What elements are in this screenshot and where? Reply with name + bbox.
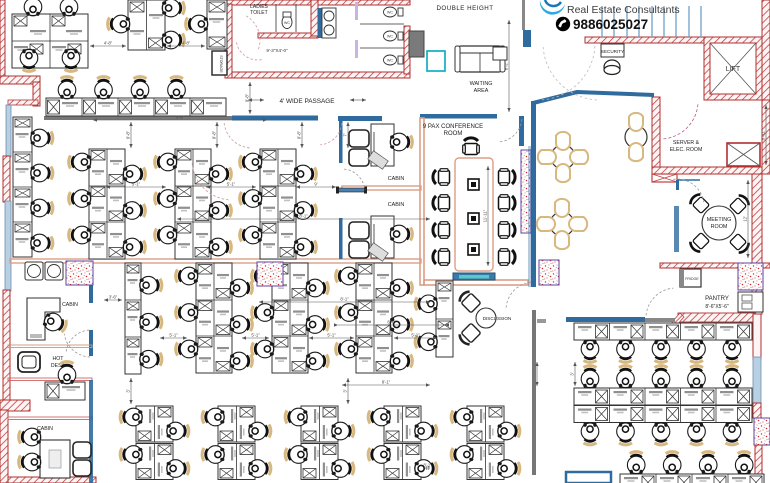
- svg-text:CABIN: CABIN: [388, 202, 405, 208]
- cabin front glass top: [338, 116, 382, 121]
- cabin 4 chair 1: [19, 428, 41, 446]
- entrance wall: [585, 37, 707, 43]
- chair: [230, 316, 252, 334]
- carpet tile right edge: [754, 418, 770, 445]
- wc 2: [384, 7, 404, 17]
- svg-text:8'-1": 8'-1": [423, 463, 432, 468]
- chair P2: [95, 77, 113, 99]
- chair B2: [162, 0, 184, 17]
- chair: [652, 423, 670, 445]
- exterior wall step vertical: [33, 82, 40, 106]
- workstation column D5: [415, 281, 453, 357]
- toilet door arc: [246, 16, 260, 50]
- workstation pod E15: [451, 406, 520, 442]
- passage door arc: [224, 122, 250, 147]
- svg-text:9'-8": 9'-8": [297, 130, 302, 139]
- pantry counter: [738, 292, 763, 312]
- passage wall gray: [44, 116, 232, 120]
- conference room bottom wall: [424, 280, 528, 285]
- exterior wall right glass: [753, 314, 761, 360]
- chair: [155, 190, 177, 208]
- server duct box: [652, 174, 677, 182]
- carpet tile A: [66, 261, 93, 285]
- conference chair R: [499, 222, 516, 239]
- exterior wall left upper: [0, 0, 5, 77]
- chair: [123, 165, 145, 183]
- chair: [723, 340, 741, 362]
- svg-text:9'-8": 9'-8": [126, 130, 131, 139]
- svg-text:WC: WC: [284, 21, 290, 25]
- svg-text:11'-11": 11'-11": [483, 209, 488, 222]
- chair: [581, 340, 599, 362]
- meeting room table: [702, 206, 736, 240]
- chair: [415, 333, 437, 351]
- chair A3: [20, 49, 38, 71]
- chair: [69, 153, 91, 171]
- meeting chair: [729, 193, 751, 215]
- chair: [735, 452, 753, 474]
- cabin 3 desk: [27, 298, 60, 340]
- chair: [240, 226, 262, 244]
- discussion chair 2: [458, 323, 481, 346]
- svg-text:5'-1": 5'-1": [169, 333, 178, 338]
- svg-text:CABIN: CABIN: [388, 176, 405, 182]
- wc 3: [384, 31, 404, 41]
- chair: [415, 295, 437, 313]
- exterior wall step band: [0, 76, 40, 84]
- chair: [249, 460, 271, 478]
- server room left wall: [652, 97, 660, 174]
- workstation column D1: [125, 263, 162, 374]
- chair: [202, 408, 224, 426]
- conference chair head: [463, 138, 480, 155]
- svg-text:8'-1": 8'-1": [299, 214, 308, 219]
- cabin 2 guest chairs: [349, 222, 369, 258]
- exterior wall right at server room: [762, 100, 770, 174]
- chair: [390, 279, 412, 297]
- conference chair R: [499, 195, 516, 212]
- cabin wall 3: [8, 417, 92, 420]
- svg-text:WAITING: WAITING: [470, 81, 493, 87]
- chair: [581, 366, 599, 388]
- svg-text:4' WIDE PASSAGE: 4' WIDE PASSAGE: [279, 98, 334, 105]
- chair: [209, 202, 231, 220]
- svg-text:9'-8": 9'-8": [212, 130, 217, 139]
- side table: [493, 47, 507, 60]
- toilet block left wall: [225, 4, 232, 78]
- svg-text:DISCUSSION: DISCUSSION: [483, 316, 512, 321]
- exterior wall right seg: [753, 403, 761, 418]
- glass wall left lower: [5, 201, 11, 291]
- chair: [306, 316, 328, 334]
- server room bottom wall: [652, 167, 770, 174]
- workstation pod E13: [285, 406, 354, 442]
- cabin door arc: [344, 169, 365, 190]
- chair: [252, 304, 274, 322]
- basin counter: [318, 8, 322, 38]
- svg-text:5'-1": 5'-1": [251, 333, 260, 338]
- workstation column C1: [69, 149, 146, 259]
- svg-text:3': 3': [570, 372, 575, 375]
- meeting chair: [729, 233, 751, 255]
- blue table: [566, 472, 611, 483]
- toilet partition wall vertical: [311, 0, 318, 36]
- chair: [688, 423, 706, 445]
- cabins bottom wall: [10, 259, 421, 263]
- server room shaft: [727, 143, 760, 166]
- exterior wall left mid: [3, 156, 10, 202]
- cabin 2 chair: [390, 225, 412, 243]
- phone icon: [556, 17, 570, 31]
- chair P1: [58, 77, 76, 99]
- hot desk armchair: [18, 352, 40, 372]
- chair: [140, 350, 162, 368]
- meeting door arc: [673, 179, 704, 202]
- wall stub: [522, 0, 525, 30]
- meeting room glass wall: [674, 206, 679, 252]
- chair: [451, 408, 473, 426]
- svg-text:8'-6"X5'-6": 8'-6"X5'-6": [705, 304, 728, 310]
- workstation pod E23: [285, 444, 354, 480]
- security stool: [604, 60, 620, 74]
- svg-text:9'-3"X4'-0": 9'-3"X4'-0": [266, 48, 288, 53]
- svg-text:5'-1": 5'-1": [227, 182, 236, 187]
- cabin 3 chair: [42, 311, 69, 335]
- chair: [230, 279, 252, 297]
- workstation pod B: [128, 0, 165, 50]
- chair: [230, 352, 252, 370]
- hot desk wall 2: [8, 378, 92, 381]
- svg-text:8'-1": 8'-1": [382, 380, 391, 385]
- toilet block bottom wall: [232, 72, 410, 78]
- waiting area rug: [427, 51, 445, 71]
- svg-text:5'-1": 5'-1": [327, 333, 336, 338]
- svg-text:Real Estate Consultants: Real Estate Consultants: [567, 4, 680, 16]
- chair: [368, 408, 390, 426]
- cabin divider wall: [342, 186, 421, 190]
- cafe table 1: [538, 132, 588, 182]
- server pipe: [677, 179, 700, 181]
- chair: [451, 446, 473, 464]
- workstation pod E21: [120, 444, 189, 480]
- chair: [415, 422, 437, 440]
- chair: [723, 366, 741, 388]
- chair A1: [24, 0, 42, 16]
- left cabin door arc: [64, 334, 90, 357]
- chair: [688, 366, 706, 388]
- chair: [306, 279, 328, 297]
- svg-text:FRIDGE: FRIDGE: [685, 277, 699, 281]
- left cabin door arc 2: [66, 330, 90, 352]
- chair: [688, 340, 706, 362]
- workstation cluster A: [12, 14, 88, 68]
- server door arc: [663, 104, 698, 139]
- lobby angled glass wall: [533, 92, 654, 103]
- cabin 2 desk: [371, 216, 394, 258]
- chair: [368, 446, 390, 464]
- chair: [617, 340, 635, 362]
- cabin glass wall 2: [89, 330, 93, 356]
- cabin 1 desk: [371, 124, 394, 166]
- toilet stall lines: [276, 4, 296, 32]
- chair: [209, 238, 231, 256]
- svg-text:9886025027: 9886025027: [573, 17, 648, 32]
- chair: [617, 366, 635, 388]
- toilet block top wall: [225, 0, 410, 5]
- table power module: [468, 179, 479, 190]
- cabin area door arc: [192, 164, 228, 200]
- pantry door arc: [646, 288, 673, 315]
- chair: [140, 313, 162, 331]
- workstation column D4: [336, 263, 413, 373]
- svg-text:STORAGE: STORAGE: [219, 55, 223, 73]
- stall door: [355, 40, 358, 58]
- svg-text:5'-1": 5'-1": [132, 182, 141, 187]
- security desk: [601, 44, 624, 57]
- svg-text:9 PAX CONFERENCE: 9 PAX CONFERENCE: [423, 124, 483, 130]
- chair: [336, 340, 358, 358]
- chair: [176, 304, 198, 322]
- svg-text:WC: WC: [387, 35, 393, 39]
- workstation pod E11: [120, 406, 189, 442]
- svg-text:ROOM: ROOM: [444, 131, 463, 137]
- chair: [123, 238, 145, 256]
- hot desk chair: [58, 362, 76, 384]
- chair: [723, 423, 741, 445]
- curtain wall mullions: [602, 6, 701, 37]
- carpet tile B: [257, 262, 283, 286]
- fridge: [680, 269, 701, 287]
- table power module: [468, 244, 479, 255]
- table power module: [468, 213, 479, 224]
- chair: [240, 190, 262, 208]
- chair: [252, 340, 274, 358]
- svg-text:12': 12': [743, 216, 748, 222]
- discussion chair 1: [458, 290, 481, 313]
- svg-text:MEETING: MEETING: [707, 217, 732, 223]
- chair: [31, 199, 53, 217]
- discussion door arc: [506, 282, 531, 308]
- exterior wall left lower: [3, 290, 10, 402]
- chair: [120, 446, 142, 464]
- chair: [31, 164, 53, 182]
- chair P3: [131, 77, 149, 99]
- chair A4: [62, 49, 80, 71]
- conference room left wall: [420, 118, 424, 285]
- chair: [155, 153, 177, 171]
- left wall workstation column: [13, 117, 53, 257]
- chair: [415, 460, 437, 478]
- chair: [294, 238, 316, 256]
- chair: [285, 446, 307, 464]
- column bar: [523, 30, 531, 47]
- hot desk workstation: [45, 382, 85, 400]
- cabin 4 table: [40, 440, 70, 478]
- conference chair L: [433, 249, 450, 266]
- svg-text:CABIN: CABIN: [62, 302, 78, 308]
- cabin 4 guest chairs: [73, 442, 91, 458]
- pantry bottom wall gray: [645, 318, 675, 322]
- chair: [581, 423, 599, 445]
- chair: [498, 422, 520, 440]
- hot desk wall 1: [8, 345, 92, 348]
- svg-text:5'-1": 5'-1": [411, 333, 420, 338]
- svg-text:SECURITY: SECURITY: [601, 49, 624, 54]
- bench row C desks: [620, 452, 764, 483]
- wc 1: [282, 12, 292, 29]
- conference side panel: [521, 150, 531, 233]
- corridor door arc: [320, 123, 342, 145]
- pantry wall connector: [672, 313, 684, 326]
- conference chair L: [433, 195, 450, 212]
- exterior wall notch band: [0, 400, 30, 411]
- chair: [240, 153, 262, 171]
- exterior wall left bottom: [0, 410, 8, 483]
- conference credenza: [453, 273, 495, 280]
- carpet tile C: [539, 260, 559, 285]
- workstation column C3: [240, 149, 317, 259]
- svg-text:9'-8": 9'-8": [245, 93, 250, 102]
- door jamb: [537, 319, 546, 323]
- chair: [140, 276, 162, 294]
- chair: [652, 366, 670, 388]
- conference chair L: [433, 222, 450, 239]
- svg-text:9': 9': [314, 182, 317, 187]
- cafe glass wall: [531, 101, 536, 287]
- chair: [306, 352, 328, 370]
- entrance door arc 2: [543, 46, 597, 100]
- cafe table 2: [537, 199, 587, 249]
- chair: [123, 202, 145, 220]
- workstation column D2: [176, 263, 253, 373]
- svg-text:WC: WC: [387, 59, 393, 63]
- chair: [617, 423, 635, 445]
- chair: [209, 165, 231, 183]
- workstation pod E12: [202, 406, 271, 442]
- bench row B desks north: [574, 366, 752, 405]
- chair P4: [168, 77, 186, 99]
- chair: [390, 352, 412, 370]
- cabin front glass 2: [339, 218, 343, 259]
- chair: [332, 460, 354, 478]
- exterior wall right light-blue: [753, 357, 761, 403]
- chair: [652, 340, 670, 362]
- chair: [31, 234, 53, 252]
- chair: [69, 190, 91, 208]
- cabin door leaf: [338, 188, 365, 192]
- chair: [663, 452, 681, 474]
- cabin 1 side unit: [368, 151, 388, 170]
- passage workstation row: [46, 98, 226, 116]
- chair: [31, 129, 53, 147]
- chair: [336, 267, 358, 285]
- svg-text:4'-8": 4'-8": [182, 41, 191, 46]
- gents stall walls: [360, 24, 404, 48]
- chair: [167, 422, 189, 440]
- pantry carpet tile: [738, 263, 763, 290]
- svg-text:DOUBLE HEIGHT: DOUBLE HEIGHT: [436, 5, 493, 12]
- chair: [202, 446, 224, 464]
- cabin front glass 1: [339, 121, 343, 163]
- exterior wall bottom strip: [8, 477, 96, 483]
- svg-text:ROOM: ROOM: [711, 224, 728, 230]
- chair: [69, 226, 91, 244]
- chair: [252, 267, 274, 285]
- entrance door arc 1: [541, 46, 595, 100]
- toilet block right wall: [404, 26, 410, 74]
- bench row B desks south: [574, 406, 752, 445]
- chair: [336, 304, 358, 322]
- svg-text:3': 3': [343, 389, 348, 392]
- svg-text:8'-2": 8'-2": [504, 61, 509, 70]
- conference glass right: [528, 146, 532, 287]
- chair C1: [186, 15, 208, 33]
- bench row A desks: [574, 323, 752, 362]
- duct shaft solid: [409, 31, 424, 57]
- pantry bottom wall blue: [566, 317, 645, 322]
- discussion area wall: [532, 310, 536, 475]
- svg-text:AREA: AREA: [474, 88, 489, 94]
- cabin 2 side unit: [368, 243, 388, 262]
- sofa: [455, 46, 505, 72]
- waste bins: [25, 262, 63, 280]
- svg-text:8'-1": 8'-1": [340, 297, 349, 302]
- storage cabinet: [212, 51, 227, 75]
- conference door arc: [499, 119, 522, 142]
- meeting chair: [688, 232, 710, 254]
- svg-text:ELEC. ROOM: ELEC. ROOM: [670, 147, 703, 153]
- svg-text:PANTRY: PANTRY: [705, 296, 729, 302]
- conference room front glass: [420, 114, 497, 119]
- svg-text:8'-11": 8'-11": [761, 129, 766, 140]
- exterior wall right upper: [762, 0, 770, 100]
- svg-text:3'-6": 3'-6": [176, 115, 185, 120]
- workstation pod E25: [451, 444, 520, 480]
- chair: [120, 408, 142, 426]
- cafe table 3: [625, 113, 647, 161]
- svg-text:TOILET: TOILET: [250, 10, 267, 16]
- pantry top wall: [660, 263, 770, 268]
- conference chair L: [433, 169, 450, 186]
- workstation pod E14: [368, 406, 437, 442]
- lift shaft walls: [704, 37, 762, 100]
- cabin glass wall 1: [89, 263, 93, 303]
- svg-text:LIFT: LIFT: [726, 66, 741, 73]
- conference chair R: [499, 169, 516, 186]
- workstation pod E24: [368, 444, 437, 480]
- meeting chair: [688, 192, 710, 214]
- workstation pod C: [207, 0, 227, 49]
- logo: [540, 0, 565, 15]
- exterior wall right mid: [752, 174, 762, 314]
- chair: [155, 226, 177, 244]
- toilet door arc 2: [236, 42, 261, 60]
- workstation column C2: [155, 149, 232, 259]
- chair A2: [60, 0, 78, 16]
- chair: [167, 460, 189, 478]
- glass wall left upper: [6, 105, 11, 157]
- stall door: [355, 2, 358, 20]
- cabin 1 chair: [390, 133, 412, 151]
- chair: [176, 340, 198, 358]
- svg-text:WC: WC: [387, 11, 393, 15]
- svg-text:3': 3': [126, 389, 131, 392]
- wc 4: [384, 55, 404, 65]
- chair: [294, 165, 316, 183]
- cabin 1 guest chairs: [349, 130, 369, 166]
- cabin glass wall 3: [89, 380, 93, 483]
- chair: [627, 452, 645, 474]
